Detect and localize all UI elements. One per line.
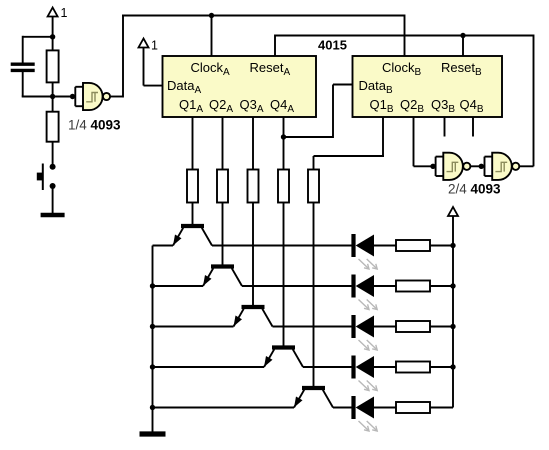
reset rail wire	[275, 35, 534, 37]
wire resistor to transistor T3 base	[252, 203, 254, 308]
svg-text:4015: 4015	[318, 38, 347, 53]
junction clock rail / ClockA	[209, 13, 214, 18]
svg-text:1: 1	[61, 6, 68, 20]
wire capacitor bottom to node	[22, 72, 24, 97]
wire row 1 emitter segment	[153, 245, 174, 247]
wire LED D4 to resistor	[374, 366, 396, 368]
wire ResetA riser	[274, 35, 276, 58]
wire R1 bottom through node to R2	[52, 82, 54, 111]
NAND Schmitt gate IC1.C (2/4 4093)	[485, 153, 520, 180]
ground (oscillator)	[41, 213, 65, 218]
wire resistor R11 to supply rail	[430, 366, 453, 368]
wire row 2 collector to LED D2	[242, 285, 354, 287]
wire resistor R9 to supply rail	[430, 285, 453, 287]
base resistor R4	[217, 170, 228, 203]
clock rail wire	[122, 15, 405, 17]
transistor T5 (NPN)	[294, 388, 333, 408]
resistor R10	[396, 321, 430, 332]
junction dot at gate input	[70, 94, 75, 99]
wire node to gate inputs	[53, 96, 76, 98]
junction Q4A / DataB branch	[281, 134, 286, 139]
base resistor R3	[187, 170, 198, 203]
wire row 1 collector to LED D1	[212, 245, 354, 247]
wire resistor R10 to supply rail	[430, 326, 453, 328]
junction ground rail / row 4	[150, 364, 155, 369]
junction at gate IC1.C input	[479, 164, 484, 169]
wire row 5 emitter segment	[153, 407, 295, 409]
wire button to ground	[52, 186, 54, 214]
junction ground rail / row 3	[150, 324, 155, 329]
junction reset rail / ResetB	[460, 33, 465, 38]
wire feedback riser (gate output to reset rail)	[533, 35, 535, 167]
wire Q1B to fifth base resistor	[382, 117, 384, 156]
NAND Schmitt gate IC1.B (2/4 4093)	[436, 153, 471, 180]
junction ground rail / row 5	[150, 405, 155, 410]
wire resistor to transistor T5 base	[313, 203, 315, 389]
wire resistor to transistor T2 base	[222, 203, 224, 267]
wire gate IC1.C output to feedback riser	[519, 165, 533, 167]
wire to capacitor top	[23, 36, 53, 38]
LED D4	[354, 356, 378, 391]
wire Q3B stub	[444, 117, 446, 137]
resistor R8	[396, 240, 430, 251]
push button S1	[37, 164, 56, 191]
wire LED D3 to resistor	[374, 326, 396, 328]
LED D2	[354, 275, 378, 310]
supply arrow node 1 (oscillator top)	[48, 6, 68, 20]
wire Q3A pin to base resistor	[252, 117, 254, 170]
wire Q4A pin to base resistor	[283, 117, 285, 170]
wire ClockA riser	[211, 16, 213, 58]
wire row 4 emitter segment	[153, 366, 265, 368]
IC 4015 section A	[163, 56, 317, 117]
node junction R1/C1 top	[50, 34, 55, 39]
junction rail / LED row 4	[450, 364, 455, 369]
wire LED D5 to resistor	[374, 407, 396, 409]
wire resistor to transistor T1 base	[192, 203, 194, 227]
wire supply to R1 top	[52, 17, 54, 52]
IC 4015 section B	[353, 56, 503, 117]
resistor R9	[396, 281, 430, 292]
wire row 2 emitter segment	[153, 285, 204, 287]
wire LED D2 to resistor	[374, 285, 396, 287]
NAND Schmitt gate IC1.A (1/4 4093)	[75, 83, 110, 110]
wire Q2B down to gate IC1.B input	[413, 117, 415, 166]
wire emitter ground rail	[152, 246, 154, 433]
LED D5	[354, 396, 378, 431]
resistor R1	[47, 50, 59, 82]
resistor R2	[47, 112, 59, 142]
wire row 3 collector to LED D3	[273, 326, 354, 328]
base resistor R5	[248, 170, 259, 203]
ground (bottom)	[140, 431, 166, 436]
supply arrow (LED rail)	[448, 207, 458, 216]
junction rail / LED row 1	[450, 243, 455, 248]
wire LED D1 to resistor	[374, 245, 396, 247]
wire row 4 collector to LED D4	[303, 366, 354, 368]
supply arrow node 1 (DataA)	[139, 39, 159, 53]
junction ground rail / row 2	[150, 283, 155, 288]
transistor T3 (NPN)	[234, 307, 273, 327]
LED D1	[354, 234, 378, 269]
base resistor R7	[308, 170, 319, 203]
transistor T2 (NPN)	[203, 267, 242, 287]
transistor T4 (NPN)	[264, 348, 303, 368]
wire Q4B stub	[472, 117, 474, 137]
junction at gate IC1.B input	[430, 164, 435, 169]
wire DataA	[143, 48, 145, 86]
wire gate IC1.B output to IC1.C input	[470, 165, 485, 167]
junction rail / LED row 2	[450, 283, 455, 288]
wire LED supply rail	[452, 216, 454, 408]
wire R2 to push button	[52, 142, 54, 167]
wire ResetB riser	[462, 36, 464, 58]
junction rail / LED row 3	[450, 324, 455, 329]
wire resistor R8 to supply rail	[430, 245, 453, 247]
LED D3	[354, 315, 378, 350]
resistor R11	[396, 362, 430, 373]
wire Q4A to DataB	[284, 136, 334, 138]
wire row 5 collector to LED D5	[333, 407, 354, 409]
resistor R12	[396, 402, 430, 413]
wire row 3 emitter segment	[153, 326, 234, 328]
wire resistor to transistor T4 base	[283, 203, 285, 348]
svg-text:1/4 4093: 1/4 4093	[68, 118, 121, 133]
svg-text:1: 1	[151, 39, 158, 53]
capacitor C1	[11, 64, 35, 70]
node junction (gate input node)	[50, 94, 55, 99]
wire gate output up to clock rail	[110, 96, 123, 98]
wire ClockB riser	[404, 15, 406, 58]
wire Q1A pin to base resistor	[192, 117, 194, 170]
svg-text:2/4 4093: 2/4 4093	[448, 182, 501, 197]
wire resistor R12 to supply rail	[430, 407, 453, 409]
wire Q2A pin to base resistor	[222, 117, 224, 170]
base resistor R6	[278, 170, 289, 203]
transistor T1 (NPN)	[173, 226, 212, 246]
